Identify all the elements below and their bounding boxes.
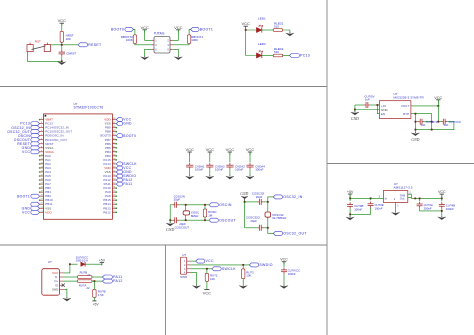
net label BOOT0 (JTAG): [111, 27, 134, 31]
svg-text:BOOT0: BOOT0: [111, 28, 124, 32]
wire XOSC bottom: [185, 215, 187, 220]
svg-text:GND: GND: [240, 192, 248, 196]
VCC power flag (reset circuit): [58, 18, 67, 26]
wire COSC32I to node: [264, 201, 268, 203]
junction input gnd: [354, 109, 356, 111]
junction CU?/VCC left: [437, 121, 439, 123]
svg-text:BOOT0: BOOT0: [123, 134, 136, 138]
svg-text:U?: U?: [182, 253, 186, 257]
wire bottom rail to CU?/VCC: [415, 122, 454, 130]
svg-text:OSCOUT: OSCOUT: [219, 218, 236, 222]
wire +5V stem: [349, 194, 351, 198]
wire CVDA3 to ground: [229, 169, 231, 175]
pin 30 PA9 (MCU right): [105, 190, 117, 194]
svg-text:VCC: VCC: [140, 25, 149, 30]
pin 17 PA7 (MCU left): [39, 182, 51, 186]
wire gnd to COSC32I: [245, 201, 258, 203]
wire LED1 to RLED1: [262, 29, 273, 31]
junction XOSC top: [185, 204, 187, 206]
sheet divider horizontal y=86.5: [0, 86, 327, 88]
capacitor CVDA2 100nF: [206, 163, 213, 169]
wire gnd rail to CU?/5V: [355, 104, 364, 106]
pin 26 PB13 (MCU right): [103, 206, 117, 210]
svg-text:+5V: +5V: [347, 190, 354, 194]
pin 44 BOOT0 (MCU right): [100, 134, 116, 138]
wire VCC to LED1: [246, 26, 257, 30]
svg-text:GND: GND: [166, 228, 174, 232]
svg-text:OSC32_OUT: OSC32_OUT: [283, 232, 307, 236]
wire VCC to CU?/VCC: [283, 262, 285, 268]
sheet divider horizontal y=163.5 right column: [327, 163, 474, 165]
pin 20 PB2 (MCU left): [40, 194, 52, 198]
regulator U? AMS1117-3.3: [383, 191, 407, 203]
svg-text:100nF: 100nF: [375, 206, 383, 210]
pin 25 PB12 (MCU right): [103, 210, 117, 214]
ground (AMS1117): [392, 212, 400, 216]
wire to CU?4A: [419, 198, 421, 201]
svg-text:VCC: VCC: [438, 190, 446, 194]
capacitor COSCIN 20pF: [173, 202, 179, 208]
svg-text:VCC: VCC: [246, 147, 255, 152]
wire CU?0B to gnd rail: [349, 209, 351, 215]
svg-text:10K: 10K: [246, 274, 251, 278]
pin 11 PA1 (MCU left): [39, 158, 51, 162]
VCC power flag (SWD cap): [280, 258, 288, 265]
wire BYP loop top: [415, 114, 431, 130]
wire LED2 to RLED2: [262, 55, 273, 57]
capacitor CU?4B 100nF: [439, 202, 445, 208]
ground (JTAG left): [141, 56, 149, 60]
pin 3 PJTAG: [152, 44, 154, 46]
wire RLED2 to PC13 tag: [283, 55, 290, 57]
VCC power flag (AMS1117 output): [438, 190, 446, 197]
VCC power flag (CVDA2): [206, 147, 215, 155]
pin 34 PA13 (MCU right): [103, 174, 116, 178]
resistor RBOOT0 100K: [133, 35, 136, 44]
svg-text:VCC: VCC: [206, 147, 215, 152]
junction CU?0E top: [370, 197, 372, 199]
svg-text:PA11: PA11: [123, 182, 132, 186]
wire CU?/VCC left lead: [438, 121, 441, 123]
pin ID USB: [60, 284, 64, 286]
wire D+ to RU?C: [93, 281, 95, 289]
pin 40 PB4 (MCU right): [105, 150, 117, 154]
svg-text:RESET: RESET: [88, 43, 102, 47]
capacitor COSCOUT 20pF: [173, 217, 179, 223]
wire node to OSC32_OUT tag: [268, 228, 273, 234]
wire RU?A to PA12 tag: [92, 280, 102, 282]
wire +5V to AMS1117 In: [350, 197, 383, 199]
svg-text:GND: GND: [52, 287, 58, 291]
svg-text:510: 510: [274, 50, 279, 54]
svg-text:100nF: 100nF: [288, 272, 296, 276]
wire VCC to PJTAG pin2: [172, 30, 178, 41]
ground (LED1): [286, 32, 294, 36]
ground (AMS1117 input): [346, 216, 354, 220]
svg-text:1M: 1M: [208, 213, 213, 217]
wire gnd rail to COSC32O: [245, 227, 258, 229]
svg-text:1uF: 1uF: [365, 97, 370, 101]
wire COSCIN to OSCIN tag: [179, 204, 209, 206]
net label RESET (MCU pin 7): [17, 142, 39, 146]
net label GND (MCU pin 35): [116, 170, 132, 174]
net label VCC (MCU pin 24): [22, 210, 40, 214]
ground (SWDIO pulldown): [239, 285, 247, 289]
wire SWDIO to RU?3: [242, 265, 244, 269]
ground (JTAG right): [174, 56, 182, 60]
wire PJTAG pin5 to ground: [145, 49, 152, 56]
pin 9 VDDA (MCU left): [40, 150, 54, 154]
svg-text:VCC: VCC: [280, 258, 288, 262]
svg-text:GND: GND: [123, 122, 132, 126]
wire RNRST to node: [61, 42, 63, 45]
pin 22 PB11 (MCU left): [40, 202, 53, 206]
svg-text:VCC: VCC: [22, 150, 30, 154]
svg-text:CNRST: CNRST: [66, 51, 76, 55]
junction ROSC top: [204, 204, 206, 206]
resistor RU?2 10K: [205, 273, 208, 281]
ground (CVDA1): [186, 175, 194, 179]
net label SWDIO (SWD): [249, 263, 272, 267]
svg-text:RU?B: RU?B: [80, 270, 88, 274]
pin 35 VSS (MCU right): [105, 170, 117, 174]
pin 1 VBAT (MCU left): [39, 118, 53, 122]
svg-text:OSCIN: OSCIN: [219, 203, 232, 207]
junction +5V node: [349, 197, 351, 199]
svg-text:LED1: LED1: [258, 16, 266, 20]
svg-text:COSCOUT: COSCOUT: [175, 225, 190, 229]
wire XOSC top: [185, 205, 187, 211]
junction bottom rail: [61, 60, 63, 62]
pin 41 PB5 (MCU right): [105, 146, 117, 150]
svg-text:VCC: VCC: [241, 21, 250, 26]
pin 42 PB6 (MCU right): [105, 142, 117, 146]
svg-text:20pF: 20pF: [174, 198, 181, 202]
svg-text:SWDIO: SWDIO: [259, 263, 272, 267]
pin 6 PD1/OSC_OUT (MCU left): [40, 138, 68, 142]
wire VCC to PJTAG pin1: [145, 30, 152, 41]
header PJTAG: [154, 37, 170, 54]
net label VCC (MCU pin 9): [22, 150, 40, 154]
regulator U? MIC5205-3.3YM5-TR: [379, 101, 411, 119]
wire +IN to EN strap: [377, 105, 379, 114]
svg-text:SWD: SWD: [180, 275, 188, 279]
net label OSC32_OUT: [273, 231, 307, 235]
svg-text:+5V: +5V: [93, 302, 100, 306]
pin 28 PB15 (MCU right): [103, 198, 117, 202]
net label SWCLK (MCU pin 37): [116, 162, 137, 166]
pin 2 PJTAG: [170, 39, 172, 41]
net label OSCIN: [209, 203, 232, 207]
svg-text:LED2: LED2: [258, 42, 266, 46]
svg-text:VCC: VCC: [185, 147, 194, 152]
svg-text:MIC5205-3.3YM5-TR: MIC5205-3.3YM5-TR: [394, 96, 425, 100]
wire CU?/VCC to ground: [283, 274, 285, 285]
resistor RLED2 510: [273, 54, 283, 57]
wire gnd rail to ground: [349, 214, 351, 216]
wire to CU?0E: [370, 198, 372, 200]
svg-text:VCC: VCC: [58, 18, 67, 23]
pin 36 VDD (MCU right): [104, 166, 116, 170]
wire RU?2 to VCC flag: [206, 281, 208, 289]
svg-text:22: 22: [87, 273, 91, 277]
junction CU?/BYP right: [431, 121, 433, 123]
junction CU?4B top: [441, 198, 443, 200]
wire D+ to RU?A: [63, 280, 77, 282]
VCC power flag (CVDA1): [185, 147, 194, 155]
wire CU?4A to gnd rail: [420, 208, 442, 211]
junction SWCLK pullup: [206, 268, 208, 270]
SWD header: [180, 257, 186, 274]
junction OSC32 out node: [267, 227, 269, 229]
resistor RNRST 10K: [60, 31, 63, 42]
pin VCC USB: [60, 272, 64, 274]
net label OSC32_OUT (MCU pin 4): [7, 130, 39, 134]
wire button to bottom rail: [27, 52, 61, 62]
capacitor COSC32O 20pF: [257, 225, 263, 231]
wire ROSC top: [204, 205, 206, 209]
svg-text:VCC: VCC: [434, 96, 442, 100]
wire SWCLK to RU?2: [206, 269, 208, 274]
svg-text:VCC: VCC: [22, 210, 30, 214]
svg-text:1uF: 1uF: [421, 123, 426, 127]
wire CNRST to bottom rail: [61, 56, 63, 61]
svg-text:1.5K: 1.5K: [98, 293, 104, 297]
net label PA12 (MCU pin 33): [116, 178, 132, 182]
svg-text:8MHz: 8MHz: [191, 214, 199, 218]
wire 32k gnd rail: [244, 202, 246, 228]
wire VCC to CVDA3: [229, 152, 231, 162]
pin 32 PA11 (MCU right): [104, 182, 117, 186]
wire DU? to +5V: [85, 263, 102, 265]
svg-text:BYP: BYP: [403, 112, 409, 116]
net label OSCIN (MCU pin 5): [18, 134, 40, 138]
wire VCC rail to LED2: [246, 30, 257, 56]
net label OSC32_IN: [273, 195, 303, 199]
wire CU?/BYP right lead: [424, 121, 431, 123]
wire BOOT1 tag to RBOOT1: [189, 29, 190, 34]
wire AMS1117 gnd pin: [395, 202, 397, 212]
svg-text:AMS1117-3.3: AMS1117-3.3: [394, 186, 413, 190]
svg-text:10K: 10K: [66, 37, 71, 41]
svg-text:1uF: 1uF: [444, 123, 449, 127]
pin 8 VSSA (MCU left): [40, 146, 54, 150]
crystal XOSC32 32.768KHz: [265, 212, 271, 217]
pin 5 PD0/OSC_IN (MCU left): [40, 134, 64, 138]
svg-text:+5V: +5V: [99, 259, 106, 263]
svg-text:U?: U?: [48, 260, 52, 264]
svg-text:20pF: 20pF: [256, 195, 263, 199]
resistor ROSC 1M: [203, 209, 206, 217]
resistor RU?C 1.5K: [93, 289, 96, 297]
wire osc gnd rail: [169, 205, 171, 220]
resistor RU?A 22: [77, 280, 92, 283]
pin 13 PA3 (MCU left): [39, 166, 51, 170]
wire CVDA2 to ground: [209, 169, 211, 175]
junction CU?/BYP left: [415, 121, 417, 123]
capacitor CNRST: [59, 50, 65, 56]
ground (SWD cap): [280, 285, 288, 289]
net label PC13 (LED2): [289, 54, 310, 58]
capacitor CVDA1 100nF: [186, 163, 193, 169]
pin GND USB: [60, 288, 64, 290]
svg-text:EN: EN: [381, 112, 385, 116]
pin 4 SWD: [187, 272, 191, 274]
net label PA12 (USB D+): [102, 279, 122, 283]
wire RLED1 to ground: [283, 30, 290, 33]
pin 5 PJTAG: [152, 48, 154, 50]
VCC power flag (CVDA4): [246, 147, 255, 155]
wire CU?/BYP left lead: [415, 121, 418, 123]
svg-text:PA12: PA12: [113, 279, 123, 283]
VCC power flag (JTAG left): [140, 25, 149, 33]
wire COSC32O to node: [264, 227, 268, 229]
svg-text:100nF: 100nF: [215, 168, 223, 172]
+5V power flag (pullup): [92, 301, 99, 307]
junction BYP node: [415, 113, 417, 115]
capacitor CU?4A 200nF: [417, 202, 423, 208]
pin 29 PA8 (MCU right): [105, 194, 117, 198]
svg-text:100nF: 100nF: [354, 208, 362, 212]
wire +5V to CU?0B: [349, 198, 351, 201]
ground (regulator bypass): [411, 132, 419, 136]
pin 12 PA2 (MCU left): [39, 162, 51, 166]
svg-text:Out: Out: [400, 197, 405, 201]
capacitor CU?/BYP 1uF: [418, 119, 424, 125]
junction bottom rail mid: [431, 129, 433, 131]
wire SWD pin3 SWCLK rail: [191, 268, 212, 270]
svg-text:32.768KHz: 32.768KHz: [272, 216, 287, 220]
svg-text:100nF: 100nF: [446, 207, 454, 211]
junction out rail a: [414, 198, 416, 200]
wire SWD pin2 SWDIO rail: [191, 264, 250, 266]
+5V power flag (AMS1117): [347, 190, 354, 197]
svg-text:100K: 100K: [191, 38, 198, 42]
pin 14 PA4 (MCU left): [39, 170, 51, 174]
net label PB11 (MCU pin 22): [31, 202, 40, 206]
pin 38 PA15 (MCU right): [103, 158, 117, 162]
wire RBOOT0 to PJTAG pin3: [135, 44, 152, 45]
pin 23 VSS (MCU left): [40, 206, 52, 210]
wire to input ground: [354, 110, 356, 112]
net label SWCLK (SWD): [212, 267, 236, 271]
wire node to CNRST: [61, 45, 63, 50]
junction SWDIO pulldown: [242, 264, 244, 266]
LED LED1: [256, 25, 262, 33]
capacitor CU?/VCC 100nF: [281, 268, 287, 274]
wire to output ground: [414, 130, 416, 133]
wire CU?0E to gnd rail: [350, 208, 371, 214]
crystal XOSC 8MHz: [183, 211, 190, 215]
pushbutton RST: [27, 43, 50, 52]
VCC power flag (SWCLK pullup): [203, 290, 211, 296]
svg-text:VCC: VCC: [226, 147, 235, 152]
VCC power flag (CVDA3): [226, 147, 235, 155]
pin 16 PA6 (MCU left): [39, 178, 51, 182]
net label VCC (SWD): [196, 259, 214, 263]
pin 3 SWD: [187, 268, 191, 270]
pin 2 PC13 (MCU left): [40, 122, 54, 126]
pin D+ USB: [60, 280, 64, 282]
resistor RBOOT1 100K: [187, 35, 190, 44]
wire Out stub: [408, 197, 412, 199]
net label BOOT1 (MCU pin 20): [17, 194, 39, 198]
svg-text:10K: 10K: [210, 277, 215, 281]
svg-text:PJTAG: PJTAG: [154, 31, 165, 35]
net label OSCOUT: [209, 218, 236, 222]
svg-text:CU?/VCC: CU?/VCC: [449, 120, 461, 124]
net label BOOT0 (MCU pin 44): [116, 134, 136, 138]
svg-text:VCC: VCC: [174, 25, 183, 30]
resistor RU?B 22: [77, 276, 92, 279]
wire COSCOUT to OSCOUT tag: [179, 219, 209, 221]
svg-text:20pF: 20pF: [250, 219, 257, 223]
pin 1 SWD: [187, 260, 191, 262]
junction NRST node: [61, 44, 63, 46]
svg-text:510: 510: [274, 25, 279, 29]
wire VCC to CVDA4: [249, 152, 251, 162]
junction VOUT node: [437, 105, 439, 107]
resistor RLED1 510: [273, 29, 283, 32]
ground (SWD pin4): [192, 285, 200, 289]
wire CU?4B to ground: [441, 209, 443, 217]
svg-text:BOOT1: BOOT1: [17, 194, 30, 198]
pin 48 VDD (MCU right): [104, 118, 116, 122]
net label PC13 (MCU pin 2): [20, 122, 39, 126]
wire VCC flag stem: [437, 100, 439, 106]
wire VCC to RNRST: [61, 23, 63, 31]
wire VOUT to VCC: [411, 105, 438, 107]
pin 18 PB0 (MCU left): [39, 186, 51, 190]
svg-text:VOUT: VOUT: [401, 104, 410, 108]
wire SWD pin1 to VCC tag: [191, 260, 196, 262]
pin 43 PB7 (MCU right): [105, 138, 117, 142]
pin 31 PA10 (MCU right): [103, 186, 117, 190]
wire USB VCC to DU?: [63, 264, 78, 273]
wire VOUT down to CU?/VCC: [437, 106, 439, 122]
wire BOOT0 tag to RBOOT0: [134, 29, 135, 34]
junction 32k gnd node: [244, 201, 246, 203]
capacitor CU?/5V 1uF: [364, 102, 370, 108]
junction input gnd rail: [349, 213, 351, 215]
wire RU?3 to ground: [242, 279, 244, 285]
junction LED feed: [245, 29, 247, 31]
junction ROSC bottom: [204, 219, 206, 221]
svg-text:BOOT1: BOOT1: [200, 28, 213, 32]
pin 2 SWD: [187, 264, 191, 266]
sheet divider vertical x=327: [326, 0, 328, 335]
svg-text:PC13: PC13: [300, 54, 310, 58]
capacitor COSC32I 20pF: [257, 199, 263, 205]
pin 10 PA0 (MCU left): [39, 154, 51, 158]
svg-text:GND: GND: [351, 117, 359, 121]
svg-text:SWCLK: SWCLK: [222, 267, 236, 271]
svg-text:100K: 100K: [126, 38, 133, 42]
pin 33 PA12 (MCU right): [103, 178, 116, 182]
wire VCC stem: [441, 194, 443, 198]
svg-text:100nF: 100nF: [195, 168, 203, 172]
sheet divider horizontal y=245: [0, 244, 327, 246]
net label RESET: [78, 43, 102, 47]
wire CVDA4 to ground: [249, 169, 251, 175]
wire gnd rail to COSCOUT: [170, 219, 172, 221]
svg-text:OSC32_IN: OSC32_IN: [283, 195, 302, 199]
pin 46 PB9 (MCU right): [105, 126, 117, 130]
svg-text:CU?/BYP: CU?/BYP: [426, 120, 438, 124]
svg-text:RST: RST: [35, 39, 41, 43]
svg-text:VCC: VCC: [203, 290, 211, 295]
pin 47 VSS (MCU right): [105, 122, 117, 126]
